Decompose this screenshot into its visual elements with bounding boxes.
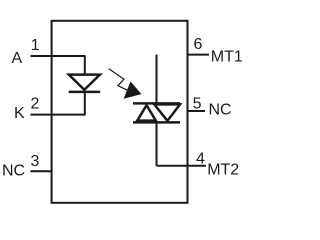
pin 6 wire (MT1) — [188, 54, 210, 56]
pin 3 wire (NC) — [30, 170, 52, 172]
triac MT2 wire — [156, 123, 158, 166]
light arrow tail zigzag — [109, 69, 128, 91]
triac Q1 top bar (MT1 side) — [133, 102, 180, 105]
LED cathode wire — [84, 92, 86, 115]
svg-text:3: 3 — [31, 153, 40, 170]
svg-text:6: 6 — [194, 36, 203, 53]
svg-text:MT2: MT2 — [207, 161, 239, 178]
svg-text:2: 2 — [31, 95, 40, 112]
pin 5 wire (NC) — [188, 110, 205, 112]
LED D1 triangle — [69, 75, 100, 90]
pin 2 wire (K, cathode) — [31, 114, 86, 116]
svg-text:K: K — [14, 105, 25, 122]
svg-text:1: 1 — [31, 37, 40, 54]
light arrow head — [125, 82, 141, 98]
LED anode wire — [84, 56, 86, 76]
LED D1 cathode bar — [69, 91, 101, 94]
triac Q1 bottom bar (MT2 side) — [133, 121, 180, 124]
svg-text:5: 5 — [193, 96, 202, 113]
pin 1 wire (A, anode) — [31, 55, 86, 57]
IC body outline U1 — [52, 21, 188, 203]
pin 4 wire (MT2) — [157, 165, 207, 167]
triac MT1 wire — [156, 55, 158, 103]
svg-text:4: 4 — [196, 150, 205, 167]
triac Q1 left triangle — [137, 105, 156, 120]
svg-text:MT1: MT1 — [211, 49, 243, 66]
triac Q1 right triangle — [154, 104, 180, 120]
svg-text:A: A — [12, 50, 23, 67]
svg-text:NC: NC — [2, 163, 25, 180]
svg-text:NC: NC — [209, 102, 232, 119]
